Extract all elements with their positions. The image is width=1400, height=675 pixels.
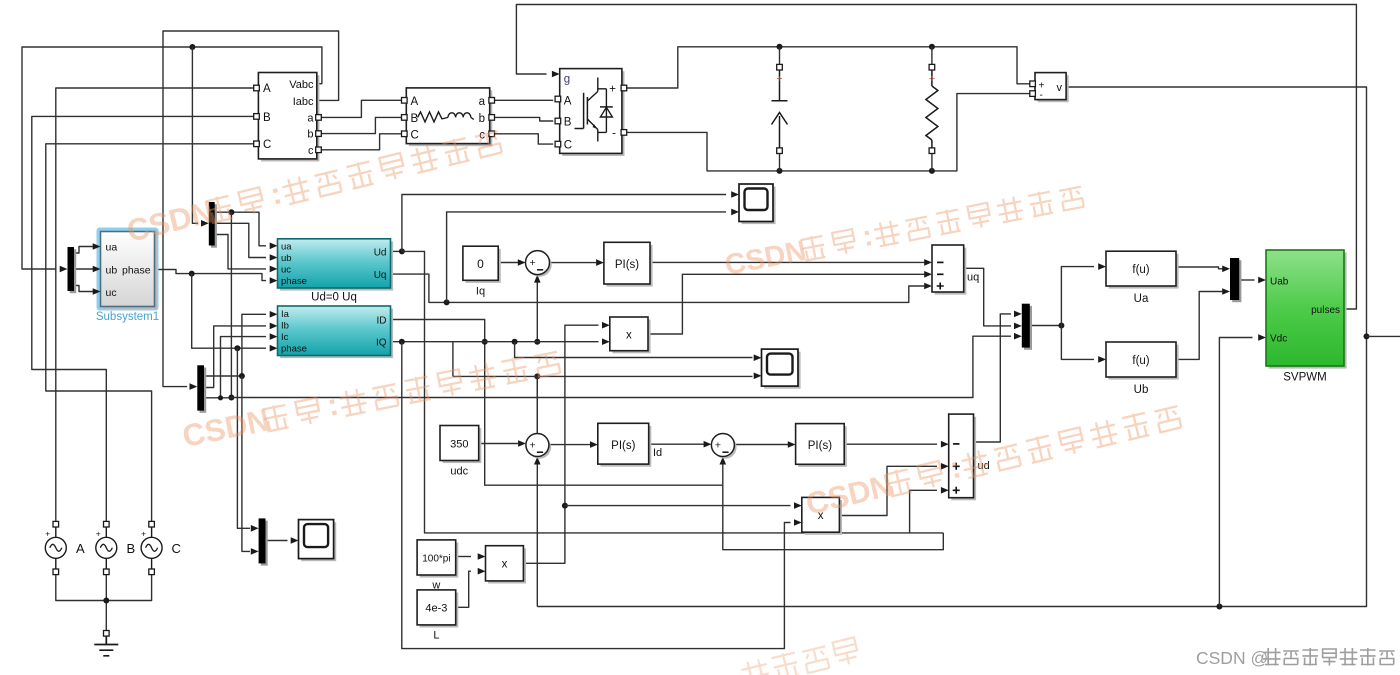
PI controller udc bbox=[600, 426, 651, 467]
junction IQ scope tap bbox=[512, 339, 518, 345]
svg-text:ua: ua bbox=[106, 242, 118, 254]
PI controller Iq bbox=[607, 245, 653, 287]
wire phase to scope mux in1 bbox=[237, 348, 250, 528]
universal bridge IGBT block bbox=[562, 71, 624, 156]
svg-text:uc: uc bbox=[281, 264, 291, 275]
constant 350 bbox=[443, 428, 482, 463]
svg-text:ub: ub bbox=[281, 253, 292, 264]
svg-text:a: a bbox=[479, 96, 486, 108]
svg-text:C: C bbox=[263, 139, 271, 151]
wire demux1 out uc bbox=[215, 235, 266, 269]
svg-text:SVPWM: SVPWM bbox=[1283, 372, 1326, 384]
wire Vabc output loop to demux bbox=[22, 47, 322, 269]
resistor branch bbox=[926, 70, 938, 151]
PI controller Id bbox=[798, 426, 847, 467]
arrowhead scope1 in1 bbox=[731, 191, 739, 198]
wire pulses feedback SVPWM to bridge gate bbox=[516, 5, 1356, 310]
sum junction Iq loop bbox=[528, 253, 552, 277]
wire demux1 out ua bbox=[215, 212, 266, 246]
svg-text:Id: Id bbox=[653, 447, 662, 459]
wire demux2 out Ib bbox=[204, 326, 266, 388]
svg-text:A: A bbox=[263, 83, 271, 95]
junction wL bbox=[562, 503, 568, 509]
svg-text:B: B bbox=[411, 113, 419, 125]
arrowhead teal1 phase bbox=[270, 277, 278, 284]
AC voltage source C bbox=[141, 537, 162, 558]
svg-text:+: + bbox=[530, 257, 536, 269]
wire Ud up to ud sum in3 bbox=[910, 490, 937, 533]
AC voltage source A bbox=[45, 537, 66, 558]
capacitor branch bbox=[772, 70, 788, 151]
wire phase to dq voltage block bbox=[155, 270, 267, 281]
mux UaUb bbox=[1232, 260, 1241, 302]
ports RLC branch bbox=[402, 98, 408, 104]
svg-text:-: - bbox=[612, 128, 616, 140]
AC voltage source B bbox=[96, 537, 117, 558]
arrowhead scope mux in2 bbox=[251, 548, 259, 555]
svg-text:IQ: IQ bbox=[376, 338, 387, 349]
wire Vabc tap down to demux1 bbox=[192, 47, 198, 223]
wire b to RLC B bbox=[320, 117, 404, 133]
arrowhead udsum in1 bbox=[941, 441, 949, 448]
arrowhead bbox=[270, 323, 278, 330]
arrowhead scope3 bbox=[291, 537, 299, 544]
arrowhead bbox=[270, 333, 278, 340]
wire cap top stub bbox=[779, 47, 781, 65]
svg-text:b: b bbox=[479, 113, 485, 125]
svg-text:100*pi: 100*pi bbox=[422, 554, 450, 565]
svg-text:Subsystem1: Subsystem1 bbox=[96, 311, 159, 323]
wire mux4 out to Uab bbox=[1239, 279, 1254, 281]
svg-text:PI(s): PI(s) bbox=[611, 440, 635, 452]
junction DC+ resistor bbox=[929, 44, 935, 50]
svg-text:pulses: pulses bbox=[1311, 305, 1340, 316]
arrowhead sum2 bottom bbox=[720, 457, 727, 465]
arrowhead uqsum in2 bbox=[924, 271, 932, 278]
three-phase V-I measurement block bbox=[261, 75, 319, 161]
svg-text:C: C bbox=[564, 140, 572, 152]
junction phase scope tap bbox=[234, 345, 240, 351]
arrowhead into voltage demux bbox=[60, 266, 68, 273]
mux scope3 bbox=[261, 521, 268, 566]
wire RLC c to bridge C bbox=[490, 134, 554, 144]
junction DC+ capacitor bbox=[777, 44, 783, 50]
svg-text:+: + bbox=[45, 529, 50, 539]
svg-text:b: b bbox=[307, 129, 313, 141]
wire demux2 out Ia bbox=[204, 314, 266, 376]
wire Ud out bbox=[391, 250, 402, 252]
svg-text:Uq: Uq bbox=[374, 270, 387, 281]
arrowhead uqsum in3 bbox=[924, 283, 932, 290]
wire IQ bottom detour to product x2 in2 bbox=[402, 342, 791, 649]
sum block ud bbox=[951, 417, 976, 501]
demux for subsystem input bbox=[70, 249, 77, 293]
wire Iabc output loop to current demux bbox=[163, 31, 339, 387]
ground bbox=[104, 631, 110, 637]
fcn Ub bbox=[1109, 345, 1179, 380]
svg-text:f(u): f(u) bbox=[1132, 355, 1149, 367]
arrowhead uc bbox=[93, 288, 101, 295]
arrowhead bbox=[270, 254, 278, 261]
svg-text:Ia: Ia bbox=[281, 309, 290, 320]
wire x1 out to uq sum in2 bbox=[648, 274, 925, 334]
wire demux ub bbox=[74, 268, 94, 270]
watermark A bbox=[123, 122, 504, 249]
arrowhead into demux1 bbox=[201, 220, 209, 227]
arrowhead scope mux in1 bbox=[251, 525, 259, 532]
wire to fu Ua bbox=[1061, 267, 1094, 326]
wire routing staircase bbox=[723, 485, 944, 550]
wire Ub to mux4 in2 bbox=[1176, 292, 1223, 360]
ports V-I measurement bbox=[254, 85, 260, 91]
svg-text:Ud: Ud bbox=[374, 247, 387, 258]
arrowhead bbox=[478, 553, 486, 560]
wire Ud feedforward bbox=[402, 251, 943, 533]
junction vdc bottom bbox=[1216, 604, 1222, 610]
wire IQ into sumIq bottom bbox=[536, 279, 538, 342]
svg-text:L: L bbox=[433, 630, 439, 642]
wire phase B source to measurement B bbox=[32, 116, 254, 524]
wire Ic up bbox=[221, 337, 267, 398]
arrowhead bbox=[478, 568, 486, 575]
svg-text:Ua: Ua bbox=[1134, 293, 1149, 305]
wire phase A source to measurement A bbox=[56, 88, 254, 524]
junction Vabc line bbox=[189, 44, 195, 50]
wire vdc to SVPWM Vdc bbox=[1219, 338, 1252, 607]
svg-text:+: + bbox=[929, 73, 935, 85]
svg-text:ua: ua bbox=[281, 241, 292, 252]
wire sum1 to PI Id bbox=[549, 444, 590, 446]
svg-text:Vabc: Vabc bbox=[289, 79, 314, 91]
wire demux ua bbox=[74, 247, 94, 254]
svg-text:uc: uc bbox=[106, 287, 117, 299]
subsystem1 block bbox=[98, 229, 157, 309]
wire vdc measurement bus bbox=[537, 87, 1366, 607]
wire resistor top stub bbox=[931, 47, 933, 65]
dq transform current block bbox=[280, 309, 393, 359]
scope2 bbox=[764, 352, 801, 389]
svg-text:v: v bbox=[1057, 82, 1063, 94]
junction Ic tap bbox=[218, 395, 223, 400]
wire cap bottom stub bbox=[779, 153, 781, 171]
arrowhead mux4 in2 bbox=[1222, 288, 1230, 295]
wire demux uc bbox=[74, 286, 94, 292]
svg-text:4e-3: 4e-3 bbox=[425, 603, 447, 615]
wire a to RLC A bbox=[320, 100, 404, 117]
arrowhead mux3 in2 bbox=[1014, 323, 1022, 330]
dq transform voltage block bbox=[280, 241, 393, 290]
wire IQ to product x1 bbox=[391, 341, 599, 343]
product wL bbox=[488, 548, 526, 583]
svg-text:A: A bbox=[411, 96, 419, 108]
mux outputs uduq bbox=[1024, 306, 1032, 350]
svg-text:x: x bbox=[502, 559, 508, 571]
arrowhead x2 in2 bbox=[794, 519, 802, 526]
capacitor ports bbox=[777, 64, 783, 70]
wire uq to output mux in2 bbox=[964, 268, 1011, 326]
junction neutral bbox=[103, 598, 109, 604]
svg-text:Ud=0 Uq: Ud=0 Uq bbox=[311, 292, 357, 304]
arrowhead ub bbox=[93, 266, 101, 273]
junction IQ detour bbox=[399, 339, 405, 345]
arrowhead PIid bbox=[590, 441, 598, 448]
junction DC- resistor bbox=[929, 168, 935, 174]
constant 4e-3 bbox=[420, 593, 459, 628]
junction fu split bbox=[1058, 323, 1064, 329]
scope1 bbox=[742, 187, 776, 225]
wire c to RLC C bbox=[320, 134, 404, 150]
wire RLC a to bridge A bbox=[490, 99, 554, 101]
three-phase series RLC branch block bbox=[409, 91, 492, 147]
arrowhead into sum1 bottom bbox=[534, 457, 541, 465]
wire sumIq to PI bbox=[550, 262, 597, 264]
svg-text:ub: ub bbox=[106, 265, 118, 277]
arrowhead ua bbox=[93, 243, 101, 250]
svg-text:ID: ID bbox=[377, 316, 387, 327]
demux1 voltages bbox=[211, 204, 217, 248]
arrowhead scope2 in2 bbox=[754, 373, 762, 380]
arrowhead scope1 in2 bbox=[731, 209, 739, 216]
svg-text:x: x bbox=[626, 330, 632, 342]
ports bridge bbox=[555, 96, 561, 102]
watermark partial bottom bbox=[740, 636, 860, 675]
svg-text:CSDN @: CSDN @ bbox=[1196, 648, 1268, 668]
arrowhead sum2 bbox=[704, 441, 712, 448]
wire demux2 out3 segment bbox=[204, 397, 231, 399]
credit CSDN bbox=[1196, 648, 1395, 668]
wire to fu Ub bbox=[1061, 326, 1094, 360]
svg-text:B: B bbox=[564, 117, 572, 129]
wire udc to scope2 lower input bbox=[453, 375, 753, 377]
arrowhead sumIq bbox=[518, 259, 526, 266]
wire sum2 to PI2 bbox=[734, 444, 788, 446]
wire 100pi to product bbox=[456, 556, 471, 558]
svg-text:f(u): f(u) bbox=[1132, 264, 1149, 276]
junction vdc right bbox=[1364, 333, 1370, 339]
ports v block bbox=[1030, 81, 1036, 87]
svg-text:Ic: Ic bbox=[281, 332, 289, 343]
wire ua branch down bbox=[230, 212, 232, 397]
wire Uq to scope1 in2 bbox=[447, 212, 726, 303]
arrowhead mux4 in1 bbox=[1222, 266, 1230, 273]
SVPWM block bbox=[1269, 253, 1347, 369]
wire jog connector bbox=[452, 342, 454, 377]
svg-text:0: 0 bbox=[477, 257, 484, 271]
svg-text:+: + bbox=[141, 529, 146, 539]
wire resistor bottom stub bbox=[931, 153, 933, 171]
junction DC- capacitor bbox=[777, 168, 783, 174]
wire scope mux out bbox=[266, 540, 288, 542]
svg-text:+: + bbox=[96, 529, 101, 539]
wire phase C source to measurement C bbox=[46, 144, 254, 524]
wire wL to product x1 in1 bbox=[523, 325, 598, 563]
wire IQ to scope2 in1 bbox=[515, 342, 753, 358]
arrowhead into g bbox=[552, 71, 560, 78]
junction IQ sum tap bbox=[534, 339, 540, 345]
svg-text:Iq: Iq bbox=[476, 286, 485, 298]
wire Uq to uq sum in3 bbox=[391, 274, 925, 302]
svg-text:B: B bbox=[127, 541, 136, 556]
arrowhead scope2 in1 bbox=[754, 354, 762, 361]
arrowhead udsum in2 bbox=[941, 463, 949, 470]
constant 0 bbox=[466, 249, 501, 283]
svg-text:A: A bbox=[564, 96, 572, 108]
watermark B bbox=[179, 342, 562, 453]
junction ua into line bbox=[228, 395, 234, 401]
wire Ua to mux4 in1 bbox=[1176, 267, 1223, 269]
wire const0 to sum bbox=[501, 262, 519, 264]
junction phase bbox=[189, 271, 195, 277]
wire PI Iq out to uq sum in1 bbox=[650, 261, 925, 263]
wire RLC b to bridge B bbox=[490, 117, 554, 121]
watermark C bbox=[722, 179, 1086, 282]
arrowhead into Vdc bbox=[1258, 334, 1266, 341]
arrowhead uqsum in1 bbox=[924, 259, 932, 266]
arrowhead x1 in2 bbox=[602, 338, 610, 345]
arrowhead into demux2 bbox=[190, 383, 198, 390]
wire ID feedback to sum2 bbox=[391, 320, 723, 486]
junction Uq scope tap bbox=[444, 299, 450, 305]
wire mux3 out bbox=[1030, 325, 1062, 327]
svg-text:phase: phase bbox=[281, 276, 307, 287]
arrowhead Uab bbox=[1258, 277, 1266, 284]
product x2 bbox=[804, 500, 842, 535]
arrowhead udsum in3 bbox=[941, 487, 949, 494]
wire vdc stub to edge bbox=[1367, 335, 1400, 337]
svg-text:Ub: Ub bbox=[1134, 384, 1149, 396]
voltage measurement block v bbox=[1038, 75, 1069, 102]
fcn Ua bbox=[1109, 254, 1179, 289]
wire udc vertical bbox=[536, 376, 538, 606]
sum junction Id loop bbox=[714, 436, 737, 459]
junction Ud bbox=[399, 248, 405, 254]
svg-text:g: g bbox=[564, 74, 570, 86]
wire 350 to sum1 bbox=[479, 443, 518, 445]
svg-text:phase: phase bbox=[122, 265, 151, 277]
wire L const to product bbox=[456, 571, 471, 607]
wire neutral to ground bbox=[105, 574, 107, 631]
svg-text:phase: phase bbox=[281, 344, 307, 355]
svg-text:udc: udc bbox=[450, 466, 468, 478]
arrowhead sumIq bottom bbox=[534, 275, 541, 283]
svg-text:+: + bbox=[776, 73, 782, 85]
svg-text:Ib: Ib bbox=[281, 321, 289, 332]
svg-text:a: a bbox=[307, 113, 314, 125]
resistor ports bbox=[929, 64, 935, 70]
arrowhead PI2 bbox=[788, 441, 796, 448]
wire PI Id to sum2 bbox=[649, 443, 704, 445]
wire PI2 to ud sum in1 bbox=[844, 443, 937, 445]
arrowhead x2 in1 bbox=[794, 502, 802, 509]
arrowhead sum1 bbox=[518, 440, 526, 447]
svg-text:uq: uq bbox=[967, 272, 979, 284]
arrowhead teal2 phase bbox=[270, 345, 278, 352]
svg-text:-: - bbox=[1040, 90, 1043, 101]
arrowhead PIiq bbox=[596, 259, 604, 266]
arrowhead x1 in1 bbox=[602, 322, 610, 329]
wire Ia to scope mux in2 bbox=[242, 376, 250, 551]
sum junction udc loop bbox=[528, 436, 551, 459]
scope3 bbox=[301, 522, 336, 561]
wire DC negative rail bbox=[625, 94, 1030, 171]
junction ID crossing bbox=[482, 339, 488, 345]
svg-text:+: + bbox=[529, 440, 535, 452]
wire source neutral rail bbox=[56, 574, 152, 600]
svg-text:C: C bbox=[411, 130, 419, 142]
svg-text:PI(s): PI(s) bbox=[808, 440, 832, 452]
svg-text:A: A bbox=[76, 541, 85, 556]
svg-text:B: B bbox=[263, 112, 271, 124]
wire udc into sum1 bbox=[536, 376, 538, 460]
junction udc scope tap bbox=[534, 373, 540, 379]
arrowhead bbox=[270, 266, 278, 273]
svg-text:c: c bbox=[308, 145, 314, 157]
arrowhead mux3 in1 bbox=[1014, 311, 1022, 318]
wire ud to output mux in1 bbox=[974, 314, 1012, 442]
arrowhead bbox=[270, 311, 278, 318]
svg-text:PI(s): PI(s) bbox=[615, 259, 639, 271]
svg-text:+: + bbox=[609, 84, 616, 96]
demux2 currents bbox=[200, 368, 207, 413]
svg-text:Vdc: Vdc bbox=[1270, 334, 1287, 345]
wire line to output mux in3 bbox=[231, 336, 1011, 397]
wire Ud to scope1 in1 bbox=[402, 195, 726, 252]
junction ua tap bbox=[228, 209, 234, 215]
svg-text:+: + bbox=[715, 440, 721, 452]
wire DC positive rail bbox=[625, 47, 1030, 88]
arrowhead bbox=[270, 243, 278, 250]
svg-text:350: 350 bbox=[450, 439, 468, 451]
constant 100*pi bbox=[420, 543, 459, 578]
junction Ia tap bbox=[239, 373, 245, 379]
wire x2 out to ud sum in2 bbox=[839, 466, 937, 515]
wire demux1 out ub bbox=[215, 223, 266, 257]
arrowhead mux3 in3 bbox=[1014, 333, 1022, 340]
wire wL to product x2 in1 bbox=[565, 505, 791, 507]
wire phase to dq current block bbox=[192, 274, 266, 349]
product x1 bbox=[612, 320, 650, 354]
svg-text:C: C bbox=[172, 541, 181, 556]
watermark D bbox=[802, 397, 1184, 522]
sum block uq bbox=[935, 248, 967, 295]
arrowhead fu Ua bbox=[1098, 263, 1106, 270]
arrowhead fu Ub bbox=[1098, 356, 1106, 363]
svg-text:Iabc: Iabc bbox=[293, 96, 314, 108]
svg-text:Uab: Uab bbox=[1270, 277, 1289, 288]
